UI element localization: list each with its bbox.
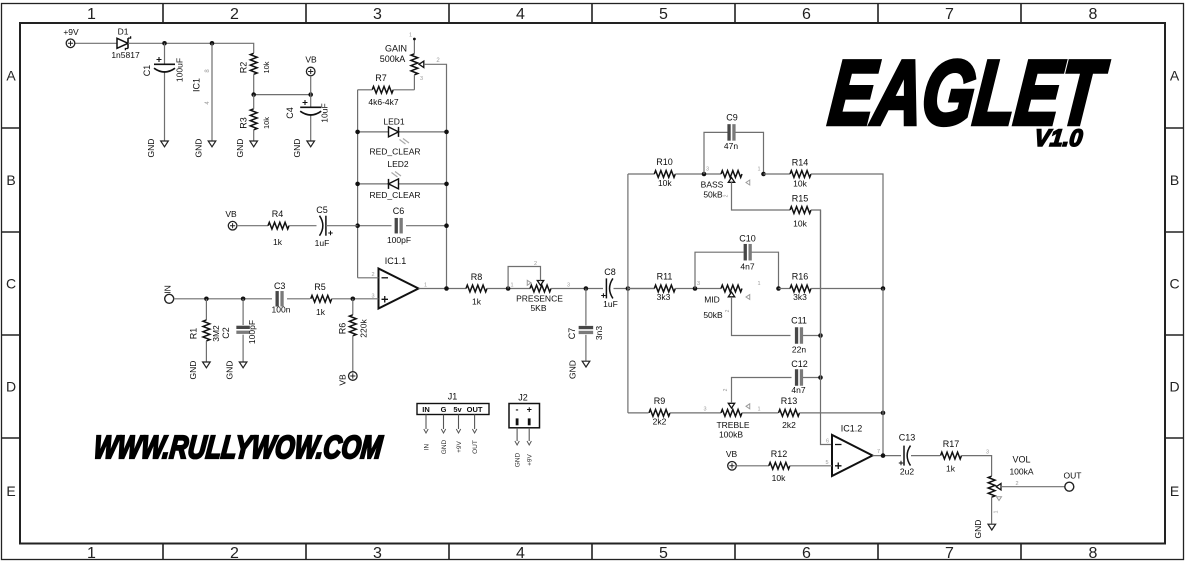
svg-text:4n7: 4n7: [740, 262, 754, 272]
svg-text:C12: C12: [791, 359, 808, 369]
svg-text:2: 2: [534, 261, 537, 267]
svg-text:4: 4: [516, 545, 525, 562]
svg-text:6: 6: [802, 545, 811, 562]
svg-text:10k: 10k: [658, 178, 672, 188]
svg-text:2: 2: [371, 272, 374, 278]
svg-text:VB: VB: [726, 449, 738, 459]
svg-text:C1: C1: [142, 65, 152, 77]
svg-text:6: 6: [802, 6, 811, 23]
svg-text:G: G: [441, 405, 447, 414]
svg-text:RED_CLEAR: RED_CLEAR: [369, 190, 420, 200]
svg-text:1k: 1k: [946, 464, 956, 474]
wire left rail to R10: [628, 173, 655, 175]
junction IC1.1 output feedback: [444, 286, 449, 291]
op-amp IC1.1: [371, 256, 427, 309]
svg-text:GND: GND: [235, 139, 245, 158]
svg-text:R16: R16: [792, 272, 809, 282]
junction BASS left: [702, 172, 707, 177]
terminal OUT: [1064, 471, 1082, 492]
resistor R12 10k: [769, 449, 790, 483]
svg-text:B: B: [6, 172, 15, 188]
svg-text:3: 3: [373, 545, 382, 562]
svg-text:1n5817: 1n5817: [111, 50, 140, 60]
wire right feedback rail: [446, 132, 448, 289]
junction mid rail C11: [818, 333, 823, 338]
svg-text:2: 2: [723, 388, 729, 391]
wire R9 to TREBLE: [670, 412, 721, 414]
potentiometer GAIN 500kA: [380, 33, 424, 90]
ic IC1 power pins: [192, 43, 213, 140]
svg-text:C6: C6: [393, 206, 405, 216]
svg-text:100kB: 100kB: [719, 430, 743, 440]
capacitor C3 100n: [272, 281, 291, 315]
svg-text:GND: GND: [225, 361, 235, 380]
svg-text:3: 3: [373, 6, 382, 23]
op-amp IC1.2: [825, 424, 880, 477]
resistor R5 1k: [311, 282, 332, 317]
resistor R13 2k2: [779, 396, 800, 430]
wire C5 to node: [326, 225, 358, 227]
capacitor C4 10uF: [285, 95, 330, 141]
svg-text:1: 1: [757, 167, 760, 173]
connector J2: [509, 393, 540, 468]
wire IC1.1 output: [419, 288, 467, 290]
wire right rail lower: [882, 289, 884, 456]
svg-text:IC1: IC1: [192, 78, 202, 92]
svg-text:8: 8: [1089, 6, 1098, 23]
wire presence to C8: [551, 288, 603, 290]
svg-text:2k2: 2k2: [782, 420, 796, 430]
svg-text:R11: R11: [657, 272, 673, 282]
svg-text:A: A: [1170, 68, 1180, 84]
junction R6 tap: [351, 297, 356, 302]
svg-text:10k: 10k: [262, 117, 271, 129]
wire D1 to C1 node: [128, 42, 165, 44]
svg-text:TREBLE: TREBLE: [716, 420, 749, 430]
wire IC1.2 output: [873, 455, 902, 457]
svg-text:D: D: [6, 379, 16, 395]
ground R3: [235, 139, 258, 158]
ground VOL: [973, 520, 996, 539]
resistor R16 3k3: [790, 272, 811, 303]
wire R15 to mid rail: [811, 210, 821, 336]
wire R5 to opamp: [332, 298, 353, 300]
junction LED1 right: [444, 130, 449, 135]
svg-text:+9V: +9V: [527, 453, 534, 465]
svg-text:10k: 10k: [793, 179, 807, 189]
svg-text:-: -: [516, 405, 519, 415]
svg-text:OUT: OUT: [472, 440, 479, 454]
svg-text:1: 1: [87, 6, 96, 23]
capacitor C13 2u2: [899, 433, 916, 477]
svg-text:1: 1: [994, 510, 1000, 513]
ground C2: [225, 361, 247, 380]
capacitor C6 100pF: [358, 206, 447, 245]
svg-text:R13: R13: [781, 396, 798, 406]
svg-text:R7: R7: [375, 73, 387, 83]
wire left rail to R9: [628, 412, 649, 414]
wire R8 to presence: [487, 288, 530, 290]
svg-text:C8: C8: [604, 267, 616, 277]
junction LED2 left: [355, 182, 360, 187]
svg-text:R6: R6: [338, 323, 348, 335]
wire left rail to R11: [628, 288, 655, 290]
ground C1: [146, 139, 168, 158]
svg-text:MID: MID: [704, 295, 720, 305]
svg-text:VOL: VOL: [1012, 455, 1030, 465]
resistor R8 1k: [466, 272, 487, 307]
wire MID to R16: [779, 288, 791, 290]
wire VB node: [254, 94, 311, 96]
terminal VB input bias: [225, 209, 237, 230]
junction VB node left: [251, 92, 256, 97]
resistor R15 10k: [790, 194, 811, 229]
svg-text:5: 5: [659, 6, 668, 23]
svg-text:1: 1: [510, 283, 513, 289]
wire VB to R4: [237, 225, 268, 227]
svg-text:1k: 1k: [472, 297, 482, 307]
svg-text:4n7: 4n7: [791, 385, 805, 395]
junction R1 tap: [204, 297, 209, 302]
resistor R2 10k: [239, 53, 272, 94]
resistor R1 3M2: [189, 299, 222, 362]
svg-text:1: 1: [409, 33, 412, 39]
ground C7: [568, 360, 590, 379]
svg-text:7: 7: [945, 6, 954, 23]
wire R4 to C5: [289, 225, 317, 227]
svg-text:OUT: OUT: [467, 405, 483, 414]
capacitor C8 1uF: [601, 267, 618, 309]
svg-text:GND: GND: [194, 139, 204, 158]
svg-text:2: 2: [1015, 481, 1018, 487]
wire tone stack left rail: [627, 174, 629, 413]
svg-text:R2: R2: [239, 62, 249, 74]
svg-text:2: 2: [230, 545, 239, 562]
svg-text:6: 6: [826, 439, 829, 445]
wire left feedback rail: [357, 90, 359, 278]
resistor R11 3k3: [654, 272, 675, 303]
resistor R17 1k: [941, 439, 962, 474]
svg-text:10k: 10k: [793, 219, 807, 229]
svg-text:10k: 10k: [262, 61, 271, 73]
svg-text:3: 3: [567, 283, 570, 289]
svg-text:VB: VB: [225, 209, 237, 219]
potentiometer PRESENCE 5KB: [508, 261, 570, 313]
wire TREBLE to R13: [742, 412, 778, 414]
svg-text:V1.0: V1.0: [1033, 125, 1084, 152]
terminal IN: [163, 285, 174, 303]
junction C6 left: [355, 223, 360, 228]
svg-text:1: 1: [757, 281, 760, 287]
svg-text:500kA: 500kA: [380, 54, 406, 64]
junction power rail at IC1 pin8: [210, 41, 215, 46]
svg-text:3: 3: [703, 407, 706, 413]
svg-text:22n: 22n: [792, 345, 806, 355]
svg-text:1k: 1k: [273, 237, 283, 247]
svg-text:10uF: 10uF: [320, 103, 330, 122]
svg-text:R14: R14: [792, 158, 809, 168]
resistor R9 2k2: [649, 396, 670, 427]
svg-text:4: 4: [516, 6, 525, 23]
capacitor C5 1uF: [315, 205, 333, 248]
svg-text:R4: R4: [272, 209, 284, 219]
connector J1: [417, 392, 489, 455]
url WWW.RULLYWOW.COM: [92, 429, 385, 465]
capacitor C9 47n: [704, 113, 764, 175]
svg-text:GND: GND: [292, 139, 302, 158]
svg-text:BASS: BASS: [701, 180, 724, 190]
svg-text:J2: J2: [518, 393, 528, 403]
wire R17 to VOL: [962, 456, 992, 476]
title version V1.0: [1033, 125, 1084, 152]
svg-text:7: 7: [945, 545, 954, 562]
svg-text:GAIN: GAIN: [385, 44, 407, 54]
potentiometer TREBLE 100kB: [703, 378, 791, 440]
svg-text:C13: C13: [899, 433, 916, 443]
svg-text:C9: C9: [726, 113, 738, 123]
junction C2 tap: [241, 297, 246, 302]
svg-text:C5: C5: [316, 205, 328, 215]
svg-text:R5: R5: [314, 282, 326, 292]
svg-text:OUT: OUT: [1064, 471, 1082, 481]
wire R10 to BASS: [675, 173, 721, 175]
svg-text:R8: R8: [471, 272, 483, 282]
svg-text:GND: GND: [441, 439, 448, 454]
svg-text:+9V: +9V: [456, 440, 463, 452]
junction MID right: [776, 286, 781, 291]
wire +9V to D1: [75, 42, 117, 44]
svg-text:5: 5: [825, 460, 828, 466]
wire R16 to right rail: [811, 288, 883, 290]
wire mid rail to IC1.2 minus: [821, 210, 833, 445]
wire GAIN wiper to right rail: [424, 64, 447, 132]
svg-text:7: 7: [877, 449, 880, 455]
svg-text:D: D: [1169, 379, 1179, 395]
svg-text:LED2: LED2: [387, 159, 409, 169]
svg-text:1uF: 1uF: [315, 238, 330, 248]
svg-text:C: C: [1169, 276, 1179, 292]
wire R14 to right rail: [811, 174, 883, 289]
potentiometer VOL 100kA: [986, 450, 1065, 524]
svg-text:1: 1: [424, 283, 427, 289]
svg-text:IC1.1: IC1.1: [385, 256, 407, 266]
svg-text:RED_CLEAR: RED_CLEAR: [369, 147, 420, 157]
junction C6 right: [444, 223, 449, 228]
svg-text:3n3: 3n3: [594, 326, 604, 340]
junction VB node right: [308, 92, 313, 97]
svg-text:IN: IN: [422, 405, 430, 414]
wire IN to C3: [174, 298, 272, 300]
svg-text:8: 8: [1089, 545, 1098, 562]
junction tone stack input: [626, 286, 631, 291]
potentiometer BASS 50kB: [701, 167, 790, 211]
svg-text:R15: R15: [792, 194, 809, 204]
svg-text:50kB: 50kB: [703, 310, 723, 320]
svg-text:100kA: 100kA: [1009, 467, 1033, 477]
diode D1 1n5817: [111, 27, 140, 61]
svg-text:1uF: 1uF: [603, 299, 618, 309]
svg-text:1: 1: [757, 407, 760, 413]
wire BASS to R14: [764, 173, 791, 175]
svg-text:B: B: [1170, 172, 1179, 188]
resistor R6 220k: [338, 299, 369, 372]
svg-text:2u2: 2u2: [900, 467, 914, 477]
svg-text:VB: VB: [305, 55, 317, 65]
pin label 2 GAIN: [436, 58, 440, 64]
terminal VB bias: [305, 55, 317, 95]
potentiometer MID 50kB: [697, 281, 791, 336]
svg-text:100uF: 100uF: [175, 58, 185, 82]
svg-text:R17: R17: [943, 439, 960, 449]
svg-text:2: 2: [724, 194, 730, 197]
svg-text:GND: GND: [973, 520, 983, 539]
wire R13 to right rail: [800, 412, 884, 414]
led LED1 RED_CLEAR: [358, 117, 447, 157]
ground IC1: [194, 139, 216, 158]
svg-text:2k2: 2k2: [653, 417, 667, 427]
svg-text:GND: GND: [515, 452, 522, 467]
junction presence left: [506, 286, 511, 291]
junction LED1 left: [355, 130, 360, 135]
svg-text:J1: J1: [448, 392, 458, 402]
svg-text:C10: C10: [739, 234, 756, 244]
svg-text:C4: C4: [285, 107, 295, 119]
svg-text:+9V: +9V: [63, 27, 79, 37]
junction right rail treble: [881, 411, 886, 416]
title EAGLET: [825, 42, 1112, 144]
svg-text:C7: C7: [567, 328, 577, 340]
svg-text:100n: 100n: [272, 305, 291, 315]
svg-text:R3: R3: [239, 117, 249, 129]
svg-text:C3: C3: [274, 281, 286, 291]
svg-text:VB: VB: [338, 374, 348, 386]
svg-text:100pF: 100pF: [247, 320, 257, 344]
wire R11 to MID: [675, 288, 721, 290]
svg-text:IN: IN: [163, 285, 173, 294]
wire R12 to IC1.2 plus: [790, 465, 832, 467]
svg-text:3: 3: [706, 167, 709, 173]
terminal +9V: [63, 27, 79, 48]
svg-text:220k: 220k: [359, 319, 369, 338]
svg-text:2: 2: [725, 309, 731, 312]
svg-text:IN: IN: [424, 443, 431, 450]
terminal VB under R6: [338, 372, 358, 386]
junction power rail at C1: [162, 41, 167, 46]
svg-text:E: E: [1170, 483, 1179, 499]
svg-text:3k3: 3k3: [657, 292, 671, 302]
junction BASS right: [761, 172, 766, 177]
svg-text:3M2: 3M2: [211, 325, 221, 342]
svg-text:5KB: 5KB: [530, 303, 546, 313]
svg-text:D1: D1: [118, 27, 129, 37]
capacitor C10 4n7: [695, 234, 779, 289]
wire power rail to R2: [165, 43, 254, 53]
svg-text:1k: 1k: [316, 307, 326, 317]
junction IC1.2 output: [881, 453, 886, 458]
svg-text:3: 3: [420, 76, 423, 82]
svg-text:5v: 5v: [453, 405, 462, 414]
junction right rail mid: [881, 286, 886, 291]
svg-text:47n: 47n: [724, 141, 738, 151]
svg-text:4k6-4k7: 4k6-4k7: [368, 97, 399, 107]
svg-text:C2: C2: [221, 327, 231, 339]
resistor R7 4k6-4k7: [358, 73, 415, 107]
svg-text:5: 5: [659, 545, 668, 562]
svg-text:C: C: [6, 276, 16, 292]
svg-text:3: 3: [697, 281, 700, 287]
svg-text:R1: R1: [189, 328, 199, 340]
capacitor C11 22n: [791, 316, 820, 355]
svg-text:R12: R12: [771, 449, 788, 459]
svg-text:2: 2: [230, 6, 239, 23]
resistor R14 10k: [790, 158, 811, 189]
resistor R3 10k: [239, 95, 272, 141]
ground R1: [188, 361, 210, 380]
svg-text:1: 1: [87, 545, 96, 562]
led LED2 RED_CLEAR: [358, 159, 447, 200]
capacitor C1 100uF: [142, 43, 185, 140]
junction MID left: [693, 286, 698, 291]
svg-text:PRESENCE: PRESENCE: [516, 294, 563, 304]
svg-text:50kB: 50kB: [703, 190, 723, 200]
capacitor C12 4n7: [791, 359, 820, 395]
junction C7 tap: [584, 286, 589, 291]
svg-text:3k3: 3k3: [793, 292, 807, 302]
capacitor C7 3n3: [567, 289, 604, 361]
capacitor C2 100pF: [221, 299, 257, 362]
junction mid rail C12: [818, 375, 823, 380]
ground C4: [292, 139, 315, 158]
junction LED2 right: [444, 182, 449, 187]
svg-text:10k: 10k: [772, 473, 786, 483]
wire minus input IC1.1: [358, 277, 379, 279]
wire C3 to R5: [287, 298, 310, 300]
svg-text:R9: R9: [654, 396, 666, 406]
svg-text:3: 3: [986, 450, 989, 456]
svg-text:GND: GND: [146, 139, 156, 158]
wire plus input IC1.1: [353, 298, 379, 300]
svg-text:IC1.2: IC1.2: [841, 424, 863, 434]
svg-text:LED1: LED1: [383, 117, 405, 127]
svg-text:GND: GND: [188, 361, 198, 380]
wire VB to R12: [736, 465, 769, 467]
svg-text:R10: R10: [656, 157, 673, 167]
wire C13 to R17: [911, 455, 940, 457]
svg-text:WWW.RULLYWOW.COM: WWW.RULLYWOW.COM: [92, 429, 385, 465]
svg-text:+: +: [527, 405, 532, 415]
svg-text:A: A: [6, 68, 16, 84]
resistor R10 10k: [654, 157, 675, 188]
terminal VB output stage: [726, 449, 738, 470]
resistor R4 1k: [268, 209, 289, 247]
svg-text:E: E: [6, 483, 15, 499]
svg-text:100pF: 100pF: [387, 235, 411, 245]
svg-text:C11: C11: [791, 316, 807, 326]
svg-text:GND: GND: [568, 360, 578, 379]
wire C8 to tone stack: [614, 288, 655, 290]
